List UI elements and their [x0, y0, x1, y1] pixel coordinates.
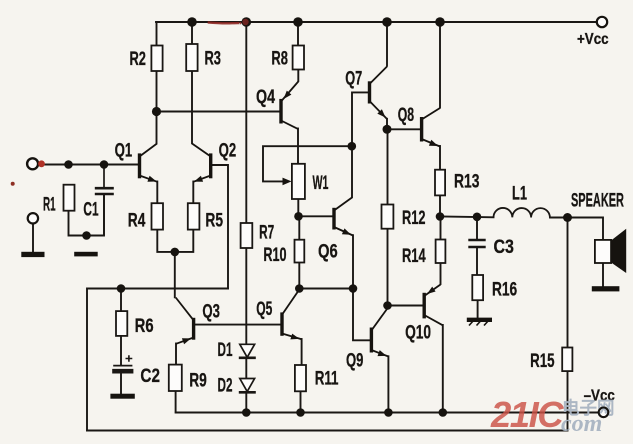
wire bottom -Vcc rail — [176, 412, 598, 414]
wire Q4 collector to W1 top — [297, 129, 299, 164]
svg-text:R5: R5 — [205, 209, 223, 231]
wire R7 bottom to D1 — [245, 248, 247, 344]
wire input jack 2 stem — [32, 223, 34, 253]
wire node to Q6 base — [298, 215, 334, 217]
wire L1 to output dot — [550, 217, 568, 219]
wire R9 bottom to rail corner — [175, 391, 177, 413]
svg-text:Q10: Q10 — [405, 321, 431, 343]
svg-text:W1: W1 — [313, 173, 329, 194]
svg-text:R3: R3 — [205, 47, 221, 69]
svg-text:R1: R1 — [43, 194, 56, 215]
node R10 bottom / Q5 collector — [295, 284, 304, 293]
wire feedback bottom run — [87, 430, 568, 432]
wire R2 bottom to Q1 collector — [156, 71, 158, 143]
transistor Q5 — [282, 290, 302, 340]
ground (R16, hatched) — [467, 320, 492, 326]
node Q7 emitter / Q8 base — [383, 125, 392, 134]
W1 wiper arrow — [283, 178, 292, 186]
wire node to R12 top — [387, 129, 389, 204]
svg-text:D2: D2 — [218, 374, 233, 396]
wire input to Q1 base — [37, 164, 140, 166]
node C3 tap — [473, 213, 482, 222]
capacitor C1 — [95, 165, 114, 236]
svg-text:+Vcc: +Vcc — [577, 31, 609, 48]
resistor R5 — [188, 203, 200, 229]
node R1 C1 ground — [82, 231, 91, 240]
svg-text:Q5: Q5 — [256, 298, 272, 320]
resistor R8 — [293, 46, 304, 70]
node Q6 emitter junction — [349, 284, 358, 293]
wire R7 top lead — [245, 22, 247, 223]
wire W1 wiper loop — [263, 146, 352, 181]
wire R8 bottom to Q4 emitter — [297, 70, 299, 82]
svg-text:Q6: Q6 — [318, 239, 338, 262]
terminal input jack 1 — [27, 158, 38, 169]
svg-text:C1: C1 — [83, 198, 98, 220]
ground (R1 C1) — [74, 252, 98, 257]
wire output node run — [440, 216, 494, 219]
resistor R14 — [436, 240, 446, 264]
wire R6 top lead — [120, 289, 122, 312]
wire Q2 emitter to R5 — [192, 182, 194, 204]
node R1 input — [64, 160, 73, 169]
wire Q3 base to Q5 base — [194, 324, 282, 326]
node Q1 collector / Q4 base — [152, 107, 161, 116]
svg-text:Q7: Q7 — [345, 68, 362, 89]
transistor Q3 — [176, 298, 194, 345]
svg-text:L1: L1 — [512, 183, 527, 204]
svg-text:C2: C2 — [140, 364, 160, 386]
red scan artifacts — [11, 19, 249, 186]
transistor Q9 — [371, 307, 388, 357]
wire Q6 collector rise — [351, 146, 353, 197]
node R12 bottom / Q10 base — [383, 301, 392, 310]
wire R8 top lead — [297, 22, 299, 46]
node R3 top — [187, 17, 197, 27]
wire speaker to ground — [602, 263, 604, 286]
capacitor C2 (electrolytic) — [112, 355, 133, 371]
svg-text:Q1: Q1 — [115, 139, 133, 161]
node R8 top — [293, 17, 303, 27]
resistor R4 — [152, 203, 164, 229]
wire tail to Q3 collector — [174, 252, 176, 297]
wire output to R15 — [567, 218, 569, 348]
svg-text:R2: R2 — [130, 47, 146, 69]
wire R10 bottom to node — [298, 263, 300, 289]
terminal -Vcc (over watermark) — [599, 408, 609, 418]
transistor Q4 — [281, 82, 298, 130]
wire C3 top lead — [476, 217, 478, 239]
resistor R16 — [472, 275, 483, 300]
wire R10 top lead — [298, 216, 300, 239]
svg-text:R7: R7 — [259, 222, 274, 244]
wire Q7 emitter to Q8 base node — [386, 119, 388, 130]
wire Q7 collector to rail — [386, 22, 388, 66]
wire R4 R5 tail join — [157, 230, 193, 252]
wire R14 bottom to Q10 collector — [440, 263, 442, 284]
transistor Q1 — [140, 144, 158, 182]
resistor R15 — [562, 348, 572, 372]
wire Q9 emitter to rail — [387, 356, 389, 412]
svg-text:R4: R4 — [128, 209, 146, 231]
svg-text:Q8: Q8 — [398, 104, 414, 126]
svg-text:R13: R13 — [454, 170, 479, 192]
wire R12 bottom to node — [387, 229, 389, 306]
wire node to Q6 emitter junction — [299, 288, 353, 290]
terminal +Vcc — [597, 17, 607, 27]
resistor R9 — [169, 365, 182, 391]
potentiometer W1 — [292, 164, 305, 199]
wire R13 bottom to output node — [439, 196, 441, 217]
diode D1 — [239, 344, 256, 358]
node W1 wiper / Q7 base — [348, 142, 357, 151]
svg-text:com: com — [561, 411, 602, 437]
ground (input jack) — [21, 252, 44, 257]
inductor L1 — [494, 208, 550, 218]
node C1 input — [100, 160, 109, 169]
svg-text:R9: R9 — [189, 369, 207, 391]
wire node Q1C to Q4 base — [157, 111, 282, 113]
wire node to Q8 base — [387, 128, 422, 130]
transistor Q10 — [424, 285, 443, 326]
watermark 21IC.com — [490, 394, 615, 437]
svg-text:Q3: Q3 — [202, 300, 220, 322]
wire D1 to D2 — [245, 358, 247, 379]
svg-text:R16: R16 — [492, 278, 517, 300]
wire R11 bottom to rail — [300, 391, 302, 412]
svg-text:R11: R11 — [315, 367, 339, 389]
wire Q1 emitter to R4 — [156, 182, 158, 204]
wire C3 to R16 — [476, 249, 478, 276]
node D2 rail — [242, 408, 251, 417]
svg-text:R15: R15 — [530, 350, 554, 372]
wire R3 top lead — [191, 22, 193, 44]
wire top +Vcc rail — [156, 21, 596, 23]
transistor Q6 — [334, 198, 353, 236]
node R11 rail — [296, 408, 305, 417]
wire C2 to ground — [120, 373, 122, 394]
wire D2 to bottom rail — [245, 393, 247, 413]
svg-text:R6: R6 — [135, 314, 154, 336]
capacitor C3 — [468, 240, 485, 247]
svg-text:R10: R10 — [263, 244, 286, 265]
wire Q8 emitter to R13 — [439, 146, 441, 170]
svg-text:R14: R14 — [402, 244, 426, 266]
node W1 bottom / Q6 base — [294, 212, 303, 221]
resistor R3 — [186, 44, 197, 71]
ground (speaker) — [592, 286, 620, 291]
wire R6 bottom to C2 — [120, 336, 122, 365]
resistor R7 — [241, 223, 253, 248]
ground (C2) — [110, 394, 134, 399]
wire feedback node horizontal — [87, 289, 228, 431]
node Q10 rail — [439, 408, 448, 417]
node speaker output — [563, 213, 572, 222]
wire R16 to ground — [477, 300, 479, 317]
transistor Q2 — [192, 144, 211, 182]
wire R15 bottom to feedback line — [567, 371, 569, 430]
transistor Q7 — [370, 67, 388, 120]
node R7 top — [242, 17, 252, 27]
svg-text:21IC: 21IC — [490, 394, 564, 435]
resistor R1 — [64, 185, 75, 211]
node Q8 collector top — [435, 17, 445, 27]
transistor Q8 — [422, 108, 440, 147]
wire W1 bottom to node — [297, 199, 299, 216]
resistor R13 — [435, 170, 445, 196]
svg-text:R12: R12 — [402, 208, 425, 229]
svg-text:Q2: Q2 — [219, 139, 237, 161]
terminal -Vcc — [599, 408, 609, 418]
svg-text:SPEAKER: SPEAKER — [571, 191, 624, 212]
wire R1 bottom to C1 bottom — [69, 195, 105, 236]
wire junction to Q9 base — [353, 289, 371, 341]
resistor R12 — [382, 205, 394, 229]
wire R3 bottom to Q2 collector — [191, 71, 193, 143]
svg-text:D1: D1 — [218, 339, 233, 361]
resistor R10 — [295, 240, 305, 263]
svg-text:Q9: Q9 — [346, 349, 363, 371]
wire Q3 emitter to R9 — [175, 344, 177, 365]
wire output to speaker — [568, 218, 604, 240]
resistor R11 — [295, 365, 306, 391]
wire node to Q10 base — [388, 305, 425, 307]
node diff tail — [171, 248, 180, 257]
node R13 bottom output — [436, 212, 445, 221]
wire R2 top lead — [156, 22, 158, 46]
resistor R2 — [151, 46, 162, 72]
diode D2 — [239, 379, 256, 393]
wire R14 top lead — [440, 217, 442, 240]
speaker — [595, 231, 625, 272]
terminal input jack 2 — [28, 213, 38, 223]
node Q7 collector top — [382, 17, 392, 27]
wire Q8 collector to rail — [439, 22, 441, 108]
node R6 feedback — [117, 284, 126, 293]
wire Q7 base drop — [352, 92, 370, 146]
wire Q6 emitter drop — [352, 235, 354, 288]
svg-text:Q4: Q4 — [256, 86, 275, 108]
node Q9 rail — [384, 408, 393, 417]
svg-text:C3: C3 — [494, 236, 515, 258]
wire Q5 emitter to R11 — [301, 339, 303, 365]
wire Q2 base feedback drop — [211, 165, 228, 289]
resistor R6 — [116, 311, 127, 336]
wire Q10 emitter to rail — [442, 325, 444, 413]
svg-text:R8: R8 — [271, 47, 287, 69]
